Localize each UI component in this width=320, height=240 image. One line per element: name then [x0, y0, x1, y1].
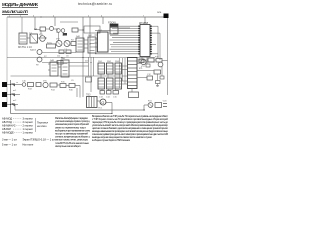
DD2 fan wire p3: [110, 30, 139, 32]
resistor R10: [148, 58, 154, 62]
wire drop E: [89, 17, 91, 57]
IC DD1: [95, 32, 109, 52]
pin labels left: [13, 82, 18, 102]
svg-text:G: G: [101, 100, 104, 105]
resistor R3: [47, 44, 56, 48]
wire seg in2: [38, 37, 47, 39]
svg-text:1в: 1в: [34, 27, 38, 31]
svg-text:сх: сх: [16, 82, 18, 84]
svg-text:На плате: На плате: [23, 142, 34, 146]
wire left bus: [10, 80, 12, 114]
svg-text:ЖМ2.ЛМ7.Ш2.ЛП: ЖМ2.ЛМ7.Ш2.ЛП: [1, 10, 28, 14]
wire sq3 out: [7, 104, 18, 106]
svg-text:импортные малогабарит.: импортные малогабарит.: [55, 144, 82, 148]
svg-text:technics@rambler.ru: technics@rambler.ru: [78, 2, 112, 6]
resistor R2: [72, 28, 78, 32]
K1 label: [108, 22, 116, 25]
svg-text:1 перекл: 1 перекл: [23, 127, 34, 131]
label кт1: [139, 67, 143, 70]
resistor R16: [69, 84, 75, 88]
wire drop C: [60, 21, 78, 23]
wire drop F: [102, 17, 104, 24]
value labels mid stage: [36, 30, 103, 82]
op-amp DA2: [88, 37, 96, 53]
wire top h1: [46, 28, 50, 30]
wire drop D: [82, 17, 84, 97]
resnet interlink wires: [101, 74, 116, 91]
ground at right: [156, 84, 159, 87]
box bottom of XP2: [129, 92, 139, 98]
capacitor C9: [156, 81, 161, 84]
table row 1: [2, 117, 33, 121]
wire top h3: [35, 29, 40, 31]
resistor R11: [154, 70, 161, 74]
resistor R12: [147, 76, 153, 80]
wire trim2: [42, 62, 88, 64]
value labels output stage: [22, 81, 167, 110]
svg-text:АВ-МОД: АВ-МОД: [2, 117, 12, 121]
capacitor C8 below DIP: [146, 64, 150, 67]
wire DA3-DA4: [58, 66, 61, 68]
wire DA1-DA2 b: [84, 43, 88, 45]
XP2 left wires: [122, 66, 128, 84]
wire mains: [144, 105, 148, 111]
transistor VT3: [64, 41, 70, 47]
wire K1 right: [118, 27, 130, 29]
wire drop G: [144, 17, 146, 24]
diode VD4: [11, 104, 15, 107]
pin numbers top frame: [9, 15, 145, 17]
DD2 fan wire p13: [95, 53, 138, 55]
wire vert right a: [157, 26, 159, 58]
wire right edge drop: [161, 67, 163, 76]
value labels right stage: [98, 57, 160, 99]
wire right cluster a: [154, 59, 168, 61]
frame top edge: [7, 16, 168, 18]
capacitor C10 pair: [57, 29, 65, 41]
title МОДУЛЬ ДИНАМИКА: [2, 2, 38, 8]
resnet RN3: [115, 63, 122, 74]
DD2 label: [139, 21, 149, 25]
resnet RN1: [98, 63, 105, 74]
table row 2: [2, 120, 33, 124]
svg-text:2 перекл: 2 перекл: [23, 120, 34, 124]
diode VD3: [11, 94, 15, 97]
connector X1 top right: [164, 14, 169, 19]
note line a1: [2, 138, 56, 142]
DD2 fan wire p2: [112, 28, 138, 30]
vertical bus v3: [93, 57, 95, 76]
svg-text:R3 1к: R3 1к: [47, 43, 52, 45]
junction dots: [10, 17, 145, 115]
svg-text:5 мм — 1 шт: 5 мм — 1 шт: [2, 142, 18, 146]
node 2 label: [12, 102, 14, 106]
DD2 fan wire p7: [110, 39, 139, 41]
wire drop A3: [40, 30, 42, 36]
wire sq1 out: [7, 84, 22, 86]
wire K1 left: [95, 30, 110, 32]
subtitle ЖМ2.ЛМ7.Ш2: [1, 10, 28, 14]
DD2 fan wire p6: [112, 37, 138, 39]
svg-text:АВ-ПОД: АВ-ПОД: [2, 120, 12, 124]
resistor R14: [50, 83, 57, 87]
switch SA1: [36, 83, 41, 87]
transistor VT4: [141, 59, 146, 64]
wire trim1: [42, 52, 76, 54]
svg-text:ТВЗ: ТВЗ: [86, 94, 91, 97]
op-amp DA1: [76, 38, 84, 52]
value labels input stage: [29, 33, 74, 58]
DD2 fan wire p12: [111, 51, 138, 53]
connector XP2 block: [128, 58, 138, 89]
transformer T1: [19, 33, 27, 44]
capacitor C1: [50, 27, 54, 31]
svg-text:на плате: на плате: [37, 125, 47, 128]
capacitor C4: [107, 91, 112, 95]
wire seg in1: [27, 37, 30, 39]
resistor R17 right edge: [0, 0, 1, 1]
resistor R4: [71, 42, 76, 46]
DD2 fan wire p8: [113, 41, 138, 43]
vertical wires to XP2: [120, 58, 126, 88]
svg-text:МОДУЛЬ - ДИНАМИК: МОДУЛЬ - ДИНАМИК: [2, 2, 38, 7]
resistor R5: [59, 50, 64, 54]
label at T2: [86, 94, 91, 97]
svg-text:АВ-МОДЕ: АВ-МОДЕ: [2, 131, 14, 135]
svg-text:АВ-ВКЛ: АВ-ВКЛ: [2, 127, 11, 131]
label вч top right: [157, 11, 162, 14]
XP2 right wires: [137, 60, 152, 78]
transistor VT2: [56, 41, 62, 47]
svg-text:АВ-МИНУС: АВ-МИНУС: [2, 124, 16, 128]
wire DIP down2: [146, 57, 148, 65]
table row 4: [2, 127, 33, 131]
DD2 fan wire p4: [113, 32, 138, 34]
IC DD2 DIP body: [140, 25, 150, 57]
connector pin XS2: [2, 92, 7, 97]
svg-text:1 перекл: 1 перекл: [23, 131, 34, 135]
trimmer RP2: [37, 57, 42, 62]
svg-text:КД503: КД503: [30, 50, 37, 52]
svg-text:3 перекл: 3 перекл: [23, 117, 34, 121]
email label: [78, 2, 112, 6]
frame left edge: [6, 17, 8, 107]
svg-text:Экран ПЭЛШО-0,18 — 1 шт: Экран ПЭЛШО-0,18 — 1 шт: [23, 138, 56, 142]
frame bottom wire 1: [15, 104, 145, 110]
capacitor C2: [63, 33, 67, 36]
resnet RN5: [107, 78, 114, 89]
transistor VT6: [43, 82, 48, 87]
table brace: [36, 118, 49, 132]
svg-text:МГ/ПН 1:10: МГ/ПН 1:10: [18, 45, 32, 49]
wire vert right b: [159, 33, 161, 60]
horizontal bus h1: [7, 57, 155, 59]
frame right edge: [167, 17, 169, 95]
capacitor C6: [22, 83, 26, 87]
vertical bus v2: [90, 57, 92, 92]
wire T2-BA1: [97, 100, 100, 102]
node 1 label: [34, 27, 38, 31]
resnet RN2: [107, 63, 114, 74]
IC DA3: [48, 62, 58, 76]
connector pin XS1: [2, 82, 7, 87]
svg-text:осн.: осн.: [157, 11, 162, 14]
wire top h4: [78, 29, 84, 31]
resnet RN6: [115, 78, 122, 89]
wire y62 under DIP: [137, 61, 155, 63]
output transformer T2: [87, 97, 98, 108]
plug XP3: [155, 103, 162, 108]
IC DA4: [61, 60, 69, 77]
frame bottom wire 2: [11, 113, 113, 115]
resistor R18 below DIP: [139, 59, 144, 63]
wire DA4 out: [69, 65, 89, 67]
wire DIP down1: [141, 57, 143, 60]
DD2 fan wire p9: [110, 44, 138, 46]
DD2 right stub wires: [152, 26, 160, 54]
DD2 right pin column: [150, 26, 152, 55]
relay K1: [110, 24, 118, 34]
svg-text:3 мм — 1 шт: 3 мм — 1 шт: [2, 138, 18, 142]
svg-text:10к: 10к: [57, 56, 60, 58]
transistor VT5: [158, 62, 163, 67]
horizontal bus h2: [11, 75, 128, 77]
trimmer RP1: [37, 50, 42, 55]
wire down to T2: [77, 86, 80, 98]
resnet RN4: [98, 78, 105, 89]
svg-text:2 перекл: 2 перекл: [23, 124, 34, 128]
wire DA1-DA2 c: [84, 47, 88, 49]
capacitor C5: [113, 91, 119, 95]
resistor R1: [40, 27, 46, 31]
fuse FU1: [148, 103, 153, 108]
note line a2: [2, 142, 34, 146]
resistor R13: [28, 83, 34, 87]
diode bridge VD1: [30, 34, 38, 43]
resistor R15: [60, 84, 66, 88]
wire BA1 right: [106, 103, 112, 114]
table row 5: [2, 131, 33, 135]
paragraph right: [92, 114, 169, 142]
wire right cluster c: [152, 70, 154, 72]
diode VD2: [11, 84, 15, 87]
wire DA1-DA2 a: [84, 39, 88, 41]
capacitor C7 right edge: [160, 76, 164, 79]
resistor R19: [156, 59, 162, 63]
T1 label МГ/ПН: [18, 45, 32, 49]
vertical bus v1: [88, 57, 90, 76]
DD2 fan wire p11: [110, 48, 139, 50]
notes column lines: [55, 116, 91, 148]
shield box top: [84, 26, 100, 33]
wire right cluster b: [157, 74, 159, 81]
DD2 fan wire p1: [110, 25, 138, 27]
capacitor C3: [100, 91, 105, 95]
speaker BA1: [100, 99, 106, 105]
wire drop A2: [21, 17, 23, 33]
DD2 left pin column: [138, 26, 140, 55]
plug prongs: [163, 104, 167, 107]
table row 3: [2, 124, 33, 128]
DD2 fan wire p5: [110, 34, 138, 36]
wire sq2 out: [7, 94, 20, 96]
connector pin XS3: [2, 102, 7, 107]
svg-text:в общем случае берётся ПЭЛ сеч: в общем случае берётся ПЭЛ сечения: [92, 138, 131, 142]
wire drop B: [54, 17, 56, 26]
transistor VT1: [40, 36, 46, 42]
resistor R20: [86, 77, 92, 82]
wire XP2 down: [131, 89, 133, 93]
wire top h2: [54, 29, 58, 33]
DD2 fan wire p10: [111, 46, 138, 48]
resistor R6: [66, 50, 71, 54]
resistor R7: [57, 61, 63, 65]
wire out stage: [57, 84, 80, 87]
wire drop A: [34, 17, 36, 30]
